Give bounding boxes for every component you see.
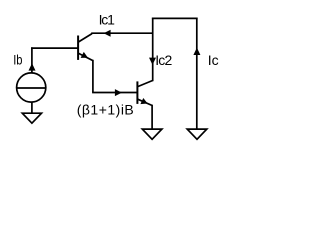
wire: Q2 collector riser up to top node: [152, 18, 154, 82]
svg-text:(β1+1)iB: (β1+1)iB: [77, 101, 135, 117]
transistor Q1 collector diagonal: [78, 34, 92, 42]
svg-text:Ic1: Ic1: [99, 12, 115, 28]
wire: stem from current source bottom to ground: [31, 102, 33, 113]
svg-text:Ic: Ic: [208, 52, 219, 68]
svg-text:Ic2: Ic2: [155, 52, 172, 68]
transistor Q1 emitter diagonal: [78, 53, 93, 60]
transistor Q2 emitter diagonal: [138, 99, 153, 105]
current source Ib: horizontal diameter line: [17, 87, 46, 89]
wire: Q1 base wire from current source to Q1 base: [31, 47, 78, 49]
current source Ib: circle: [17, 73, 46, 102]
transistor Q2 base bar: [136, 81, 138, 104]
wire: Q1 collector horizontal to node: [91, 32, 153, 34]
current arrow Ic (pointing up on right branch): [193, 48, 200, 55]
transistor Q2 collector diagonal: [138, 80, 153, 86]
wire: Q2 base wire: [92, 92, 137, 94]
current arrow (β1+1)iB (pointing right on Q2 base wire): [115, 89, 122, 96]
transistor Q2 emitter arrow: [140, 98, 147, 104]
svg-text:Ib: Ib: [13, 51, 22, 67]
wire: right vertical branch (Ic): [196, 18, 198, 130]
ground (below current source): [22, 113, 41, 123]
wire: vertical drop from base wire corner to current source top: [31, 47, 33, 73]
transistor Q1 emitter arrow: [81, 52, 88, 58]
wire: Q1 emitter vertical drop: [92, 60, 94, 93]
wire: Q2 emitter vertical drop to ground: [151, 105, 153, 129]
current arrow Ib (pointing up on wire): [29, 63, 36, 70]
transistor Q1 base bar: [77, 36, 79, 60]
wire: top horizontal wire: [152, 17, 198, 19]
ground (below right branch): [187, 129, 207, 139]
current arrow Ic1 (pointing left on collector wire): [104, 30, 111, 37]
ground (below Q2 emitter): [142, 129, 162, 139]
current arrow Ic2 (pointing down on collector riser): [149, 58, 156, 65]
